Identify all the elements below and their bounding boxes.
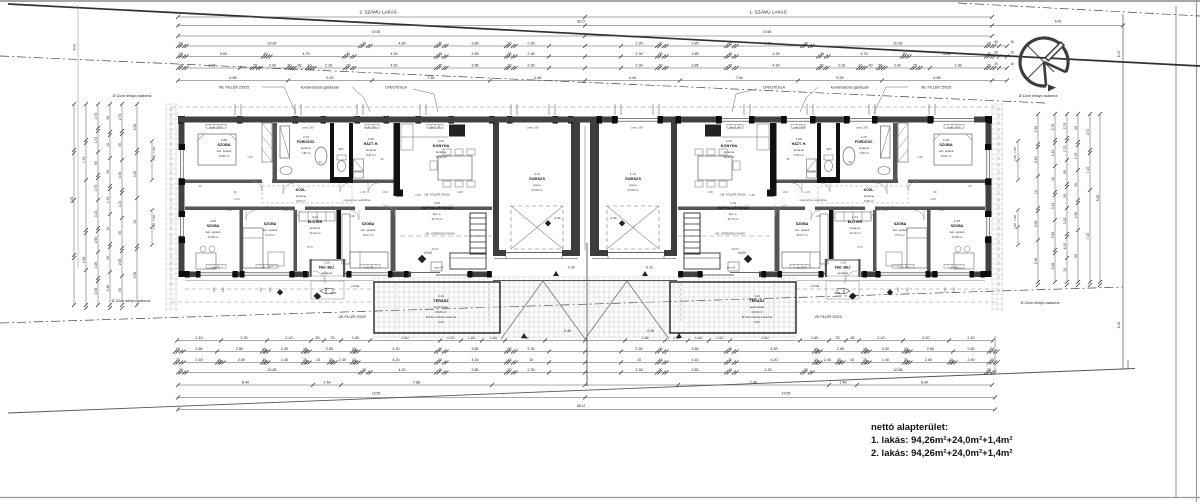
kitchen table with chairs (698, 156, 732, 180)
svg-text:2.36: 2.36 (1034, 258, 1038, 265)
svg-text:30: 30 (507, 42, 511, 46)
wardrobe szoba top-left (262, 123, 272, 162)
bottom dim row 1 (175, 336, 995, 342)
label wc unit1 (827, 147, 833, 151)
svg-text:45: 45 (438, 64, 442, 68)
top dim row F right extension (992, 67, 1007, 69)
desk chairs szoba bottom-left (954, 253, 974, 269)
svg-text:3.10: 3.10 (1063, 218, 1067, 225)
svg-text:FED. BEJ.: FED. BEJ. (835, 266, 851, 270)
svg-text:HÁZT. H.: HÁZT. H. (364, 141, 379, 146)
left vdim col 6 (133, 102, 139, 307)
svg-text:SZOBA: SZOBA (264, 222, 277, 226)
svg-text:3.85: 3.85 (471, 368, 478, 372)
washer hazt (354, 159, 364, 171)
svg-text:30: 30 (329, 358, 333, 362)
svg-text:Ø 12cm lefolyó csatorna: Ø 12cm lefolyó csatorna (1021, 301, 1060, 305)
svg-text:-0.33: -0.33 (567, 266, 574, 270)
label hazt unit1 (792, 137, 807, 157)
svg-text:TERASZ: TERASZ (749, 299, 765, 303)
svg-text:3.85: 3.85 (691, 42, 698, 46)
garage bottom wall (590, 250, 677, 256)
left vdim col 1 (70, 102, 76, 307)
svg-text:2.40: 2.40 (824, 358, 831, 362)
svg-text:3.85: 3.85 (471, 64, 478, 68)
svg-text:kondenzációs gázkazán: kondenzációs gázkazán (831, 86, 869, 90)
svg-text:9,74 m²: 9,74 m² (895, 233, 905, 237)
label terasz unit1 (742, 294, 773, 324)
svg-text:1.60: 1.60 (811, 336, 818, 340)
svg-text:30: 30 (176, 358, 180, 362)
svg-text:30: 30 (819, 64, 823, 68)
svg-text:1. lakás: 94,26m²+24,0m²+1,4m²: 1. lakás: 94,26m²+24,0m²+1,4m² (871, 435, 1013, 446)
svg-text:2.90: 2.90 (1051, 232, 1055, 239)
desk chairs szoba bottom-left (196, 253, 216, 269)
svg-text:7.10: 7.10 (1086, 233, 1090, 240)
svg-text:lam. p.: lam. p. (729, 212, 738, 216)
garage dashed slab with X (607, 206, 659, 249)
svg-text:lam. parkett: lam. parkett (950, 230, 965, 234)
svg-text:kerámia: kerámia (838, 271, 848, 275)
svg-text:1.15: 1.15 (360, 190, 366, 194)
svg-text:pán 90: pán 90 (727, 266, 736, 270)
svg-text:90: 90 (318, 160, 322, 164)
svg-text:kondenzációs gázkazán: kondenzációs gázkazán (301, 86, 339, 90)
svg-text:30: 30 (1074, 183, 1078, 187)
svg-text:lapburkolat: lapburkolat (434, 305, 448, 309)
wall-top mini dim marks (235, 104, 935, 115)
garage door recess (494, 258, 578, 260)
top dim row D (176, 42, 997, 48)
svg-text:30: 30 (1051, 177, 1055, 181)
svg-text:pán 90: pán 90 (212, 266, 221, 270)
svg-text:2.30: 2.30 (882, 347, 889, 351)
windows in bottom wall (200, 271, 232, 277)
svg-text:2.30: 2.30 (635, 52, 642, 56)
svg-text:5,87 m²: 5,87 m² (794, 153, 804, 157)
svg-text:45: 45 (438, 52, 442, 56)
entrance opening at fed.bej (309, 271, 346, 277)
partition szoba/furdo (273, 123, 278, 183)
door arcs corridor (252, 181, 262, 191)
svg-text:90: 90 (94, 161, 98, 165)
svg-text:24,00 m²: 24,00 m² (531, 188, 542, 192)
svg-text:6.40: 6.40 (242, 381, 249, 385)
bottom dim row 2 (173, 347, 1000, 353)
svg-text:10: 10 (303, 347, 307, 351)
svg-text:kerámia: kerámia (850, 226, 860, 230)
svg-text:8.00: 8.00 (1096, 195, 1100, 202)
svg-text:30: 30 (994, 62, 998, 66)
svg-text:10: 10 (949, 358, 953, 362)
svg-text:2.05: 2.05 (118, 259, 122, 266)
svg-text:pán 1.80: pán 1.80 (794, 126, 805, 130)
svg-text:90: 90 (198, 184, 202, 188)
bed szoba bottom-mid (907, 228, 927, 268)
svg-text:2.75: 2.75 (1063, 123, 1067, 130)
svg-text:1-19: 1-19 (840, 261, 846, 265)
svg-text:7,80 m²: 7,80 m² (859, 151, 869, 155)
svg-text:10: 10 (814, 347, 818, 351)
page frame top (0, 0, 1200, 2)
svg-text:10: 10 (352, 358, 356, 362)
svg-text:7.10: 7.10 (82, 157, 86, 164)
svg-text:2. lakás: 94,26m²+24,0m²+1,4m²: 2. lakás: 94,26m²+24,0m²+1,4m² (871, 448, 1013, 459)
svg-text:GARÁZS: GARÁZS (529, 176, 545, 181)
svg-text:15: 15 (529, 358, 533, 362)
svg-text:10: 10 (217, 358, 221, 362)
eloter wardrobe (299, 212, 335, 221)
svg-text:-0.30: -0.30 (610, 216, 617, 220)
svg-text:10: 10 (106, 143, 110, 147)
property corner vertical 4.00 line (1122, 14, 1124, 369)
svg-text:30: 30 (179, 368, 183, 372)
svg-text:4.20: 4.20 (398, 368, 405, 372)
svg-text:3.85: 3.85 (691, 347, 698, 351)
svg-text:19.55: 19.55 (372, 30, 381, 34)
svg-text:90: 90 (786, 157, 790, 161)
interior wall corridor bottom (875, 207, 985, 211)
svg-text:4.20: 4.20 (390, 64, 397, 68)
svg-text:15: 15 (850, 358, 854, 362)
garage door opening (506, 250, 562, 256)
svg-text:4.20: 4.20 (398, 42, 405, 46)
bed szoba3 (350, 252, 388, 268)
svg-text:90: 90 (1074, 254, 1078, 258)
svg-text:30: 30 (658, 42, 662, 46)
paving hatch around building (166, 104, 1004, 338)
svg-text:10: 10 (814, 358, 818, 362)
svg-text:(-0.02): (-0.02) (351, 284, 360, 288)
svg-text:30: 30 (837, 358, 841, 362)
bathtub oval furdo (843, 147, 855, 165)
svg-text:1-04: 1-04 (726, 139, 732, 143)
interior wall corridor bottom (185, 207, 295, 211)
svg-text:2.80: 2.80 (236, 347, 243, 351)
svg-text:10: 10 (863, 347, 867, 351)
svg-text:-0.33: -0.33 (645, 266, 652, 270)
svg-text:1.50: 1.50 (1013, 223, 1017, 229)
label garazs unit2 (529, 172, 545, 192)
svg-text:1.50: 1.50 (152, 215, 156, 221)
svg-text:30: 30 (658, 64, 662, 68)
svg-text:1.50: 1.50 (152, 147, 156, 153)
svg-text:2.36: 2.36 (82, 257, 86, 264)
label kozl unit2 (296, 187, 307, 203)
svg-text:pán 1.80: pán 1.80 (857, 126, 868, 130)
svg-text:45: 45 (438, 347, 442, 351)
svg-text:45: 45 (728, 64, 732, 68)
bottom dim row 4 (176, 368, 997, 374)
svg-text:4.10: 4.10 (118, 201, 122, 208)
label szoba top unit2 (217, 138, 232, 158)
svg-text:7.88: 7.88 (413, 381, 420, 385)
bottom rows right end vertical (994, 336, 996, 374)
svg-text:45: 45 (658, 358, 662, 362)
svg-text:14,81 m²: 14,81 m² (940, 154, 951, 158)
svg-text:pán 90: pán 90 (797, 266, 806, 270)
svg-text:1.50: 1.50 (259, 287, 263, 293)
svg-text:30: 30 (1063, 194, 1067, 198)
svg-text:30: 30 (118, 143, 122, 147)
svg-text:30: 30 (106, 116, 110, 120)
svg-text:ELŐTÉR: ELŐTÉR (848, 219, 863, 224)
svg-text:pán 1.80: pán 1.80 (632, 126, 643, 130)
svg-text:lam. parkett: lam. parkett (361, 228, 376, 232)
svg-text:30: 30 (804, 368, 808, 372)
svg-text:45: 45 (728, 42, 732, 46)
svg-text:23,06 m²: 23,06 m² (435, 310, 446, 314)
load bearing wall hazt/konyha (394, 123, 401, 196)
driveway apron edge (493, 280, 585, 282)
pillar VB 30x30 (767, 190, 774, 197)
svg-text:19.55: 19.55 (782, 392, 791, 396)
exterior bottom wall left unit (678, 272, 985, 278)
svg-text:2.60: 2.60 (967, 347, 974, 351)
svg-text:75: 75 (913, 64, 917, 68)
partition bottom rooms 2 (294, 210, 298, 271)
svg-text:2.43: 2.43 (234, 197, 240, 201)
svg-text:5.00: 5.00 (943, 52, 950, 56)
area note text (871, 422, 1013, 459)
left vdim col 3 (94, 102, 100, 307)
svg-text:30: 30 (987, 42, 991, 46)
label konyha unit2 (433, 139, 450, 159)
svg-text:SZOBA: SZOBA (951, 224, 964, 228)
svg-text:30: 30 (994, 40, 998, 44)
svg-text:±0.00: ±0.00 (424, 251, 432, 255)
svg-text:kerámia: kerámia (859, 146, 869, 150)
svg-text:4.49: 4.49 (629, 76, 636, 80)
svg-text:1.05: 1.05 (247, 155, 253, 159)
svg-text:2.30: 2.30 (527, 42, 534, 46)
svg-text:FED. BEJ.: FED. BEJ. (319, 266, 335, 270)
svg-text:1.50: 1.50 (943, 287, 947, 293)
party strip line (584, 126, 586, 250)
svg-text:10.85: 10.85 (267, 368, 276, 372)
svg-text:pán 1.80: pán 1.80 (303, 126, 314, 130)
svg-text:12,07 m²: 12,07 m² (796, 233, 807, 237)
svg-text:1.50: 1.50 (905, 287, 909, 293)
sofa nappali (striped L) (470, 213, 486, 254)
svg-text:-0.46: -0.46 (563, 329, 570, 333)
label szoba bm unit2 (263, 222, 278, 237)
svg-text:30: 30 (904, 358, 908, 362)
toilet furdo (280, 167, 292, 175)
svg-text:2.42: 2.42 (894, 64, 901, 68)
label szoba bl unit1 (950, 219, 965, 239)
property line right vertical (1175, 6, 1177, 497)
eloter wardrobe (835, 212, 871, 221)
svg-text:30: 30 (990, 347, 994, 351)
svg-text:5.20: 5.20 (326, 76, 333, 80)
svg-text:30: 30 (658, 347, 662, 351)
wardrobe szoba top-left (898, 123, 908, 162)
svg-text:15: 15 (1010, 40, 1014, 44)
svg-text:6.85: 6.85 (933, 76, 940, 80)
svg-text:1.45: 1.45 (938, 208, 944, 212)
svg-text:1.06: 1.06 (815, 214, 821, 218)
svg-text:2.10: 2.10 (967, 336, 974, 340)
svg-text:75: 75 (863, 358, 867, 362)
svg-text:5.00: 5.00 (220, 52, 227, 56)
corridor floor heating dashed zone (818, 186, 908, 203)
svg-text:1-05: 1-05 (954, 219, 960, 223)
coffee table nappali (728, 262, 739, 271)
svg-text:1.10: 1.10 (1051, 150, 1055, 157)
svg-text:90: 90 (380, 157, 384, 161)
svg-text:1.50: 1.50 (152, 155, 156, 161)
svg-text:2.16: 2.16 (325, 64, 332, 68)
svg-text:6.06: 6.06 (754, 320, 760, 324)
svg-text:2.30: 2.30 (635, 64, 642, 68)
svg-text:2.75: 2.75 (94, 185, 98, 192)
svg-text:90: 90 (233, 190, 237, 194)
wardrobe szoba3 (342, 214, 350, 264)
svg-text:2.16: 2.16 (838, 64, 845, 68)
svg-text:30: 30 (362, 42, 366, 46)
wc shaft walls (836, 123, 840, 183)
right vdim col 3 (1063, 112, 1069, 287)
svg-text:ÜVEGTÉGLA: ÜVEGTÉGLA (763, 85, 786, 90)
svg-text:50: 50 (287, 64, 291, 68)
svg-text:1.73: 1.73 (1063, 146, 1067, 153)
svg-text:30: 30 (179, 52, 183, 56)
svg-text:2.43: 2.43 (930, 197, 936, 201)
left setback vertical line with 6.00 (77, 5, 79, 268)
svg-text:30: 30 (262, 358, 266, 362)
svg-text:KÖZL.: KÖZL. (864, 187, 875, 192)
svg-text:2.05: 2.05 (1051, 263, 1055, 270)
svg-text:1.40: 1.40 (323, 381, 330, 385)
svg-text:10: 10 (858, 64, 862, 68)
svg-text:-0.47: -0.47 (834, 291, 841, 295)
svg-text:VB. GERENDA 30X45: VB. GERENDA 30X45 (425, 232, 455, 236)
svg-text:4.75: 4.75 (302, 52, 309, 56)
svg-text:19.55: 19.55 (372, 392, 381, 396)
svg-text:lam. p.: lam. p. (433, 212, 442, 216)
svg-text:melegvizes padlófűtés: melegvizes padlófűtés (343, 198, 371, 202)
svg-text:30: 30 (362, 368, 366, 372)
right vdim col 4 (1074, 112, 1080, 287)
svg-text:20: 20 (902, 52, 906, 56)
partition eloter/szoba dark (829, 210, 834, 271)
svg-text:35,74 m²: 35,74 m² (431, 217, 442, 221)
svg-text:15: 15 (1010, 62, 1014, 66)
garage bottom wall (493, 250, 580, 256)
svg-text:1-08: 1-08 (943, 138, 949, 142)
exterior bottom wall left unit (185, 272, 492, 278)
svg-text:kerámia: kerámia (301, 146, 311, 150)
svg-text:WC: WC (827, 147, 833, 151)
svg-text:1.50: 1.50 (952, 287, 956, 293)
svg-text:30: 30 (346, 64, 350, 68)
svg-text:40.00: 40.00 (732, 247, 739, 251)
left vdim col 4 (106, 102, 112, 310)
svg-text:kerámia: kerámia (366, 148, 376, 152)
svg-text:2-10: 2-10 (438, 294, 444, 298)
svg-text:2.42: 2.42 (269, 64, 276, 68)
interior tiny dims (198, 155, 972, 251)
label szoba bm unit1 (893, 222, 908, 237)
svg-text:1/18: 1/18 (457, 190, 463, 194)
top dim row G right extension (992, 80, 1007, 82)
pillar VB 30x30 (396, 190, 403, 197)
corridor floor heating dashed zone (262, 186, 352, 203)
svg-text:14,81 m²: 14,81 m² (218, 154, 229, 158)
svg-text:lam. parkett: lam. parkett (263, 228, 278, 232)
svg-text:2.85: 2.85 (326, 347, 333, 351)
svg-text:1.50: 1.50 (212, 287, 216, 293)
svg-text:3.85: 3.85 (691, 64, 698, 68)
svg-text:kerámia: kerámia (296, 194, 306, 198)
svg-text:1.98: 1.98 (208, 64, 215, 68)
svg-text:4.15: 4.15 (1117, 322, 1121, 329)
terasz outline (670, 282, 796, 333)
svg-text:30: 30 (658, 368, 662, 372)
svg-text:pán 90: pán 90 (900, 266, 909, 270)
svg-text:kerámia: kerámia (436, 150, 446, 154)
svg-text:30: 30 (118, 288, 122, 292)
svg-text:30: 30 (987, 368, 991, 372)
partition szoba/nappali (775, 210, 780, 271)
svg-text:2.73: 2.73 (1086, 129, 1090, 136)
label szoba top unit1 (939, 138, 954, 158)
svg-text:7.88: 7.88 (750, 381, 757, 385)
svg-text:10.82: 10.82 (893, 42, 902, 46)
roof overhang dashed outline (171, 107, 999, 302)
page frame right (1196, 0, 1198, 502)
coffee table nappali (431, 262, 442, 271)
svg-text:20: 20 (263, 52, 267, 56)
beam dashed nappali (678, 235, 770, 237)
label furdosz unit1 (855, 135, 873, 155)
svg-text:15: 15 (637, 358, 641, 362)
svg-text:30: 30 (507, 347, 511, 351)
svg-text:2.30: 2.30 (527, 52, 534, 56)
label furdosz unit2 (297, 135, 315, 155)
svg-text:1-07: 1-07 (861, 135, 867, 139)
svg-text:1.50: 1.50 (1013, 215, 1017, 221)
radiators (206, 125, 226, 129)
entry step slab (826, 281, 859, 299)
building unit 1 (right) shapes mirrored (178, 116, 992, 339)
svg-text:45: 45 (438, 368, 442, 372)
svg-text:30: 30 (176, 347, 180, 351)
bottom dim row 5 (176, 381, 994, 387)
svg-text:VB. PILLÉR 20X25: VB. PILLÉR 20X25 (814, 314, 841, 319)
svg-text:10.85: 10.85 (893, 368, 902, 372)
label fedbej unit1 (835, 261, 851, 276)
svg-text:Ø 12cm lefolyó csatorna: Ø 12cm lefolyó csatorna (113, 94, 152, 98)
svg-text:2.30: 2.30 (635, 42, 642, 46)
svg-text:19.55: 19.55 (763, 30, 772, 34)
svg-text:2.75: 2.75 (1074, 153, 1078, 160)
svg-text:2.40: 2.40 (415, 193, 421, 197)
mini dims below bottom wall (212, 287, 956, 293)
sliding door nappali (411, 271, 467, 277)
svg-text:2.10: 2.10 (877, 336, 884, 340)
svg-text:45: 45 (507, 358, 511, 362)
svg-text:2-02: 2-02 (434, 201, 440, 205)
svg-text:pán 1.80: pán 1.80 (528, 126, 539, 130)
svg-text:ÜVEGTÉGLA: ÜVEGTÉGLA (385, 85, 408, 90)
label nappali unit1 (717, 201, 748, 221)
svg-text:3.10: 3.10 (1051, 203, 1055, 210)
svg-text:4.20: 4.20 (770, 358, 777, 362)
svg-text:-0.08: -0.08 (646, 329, 653, 333)
svg-text:10,10 m²: 10,10 m² (849, 231, 860, 235)
